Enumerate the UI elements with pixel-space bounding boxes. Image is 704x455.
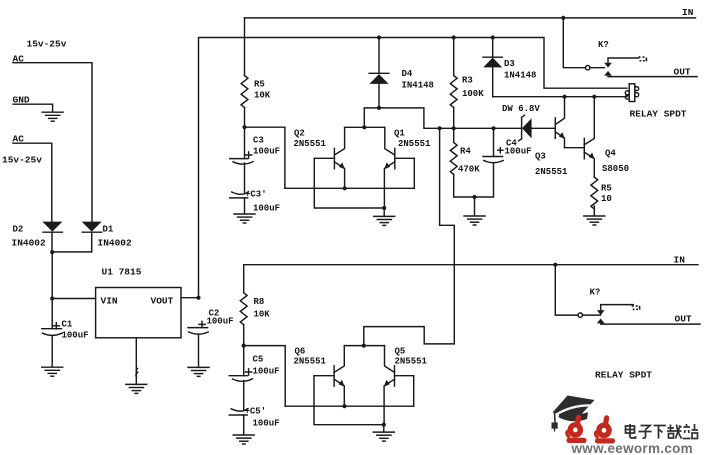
wire OUT (upper) (608, 76, 697, 78)
svg-text:IN4002: IN4002 (98, 238, 133, 249)
transistor Q4 (584, 97, 594, 177)
wire IN rail (top) (245, 17, 696, 19)
svg-text:IN4002: IN4002 (12, 238, 47, 249)
ground (GND input) (42, 112, 63, 121)
svg-text:10K: 10K (254, 310, 271, 320)
svg-text:R8: R8 (254, 297, 265, 307)
diode D2 (42, 222, 62, 252)
wire VOUT to +15V rail (181, 297, 199, 299)
diode D1 (82, 222, 102, 252)
svg-text:100uF: 100uF (505, 147, 532, 157)
polarity + (C2) (199, 321, 205, 327)
contact NO triangle (upper) (604, 63, 612, 68)
node supply drop junction (438, 126, 442, 130)
svg-text:K?: K? (590, 288, 601, 298)
svg-text:R5: R5 (254, 80, 265, 90)
ground (U1) (126, 384, 147, 393)
wire Q5 base loop (413, 376, 415, 407)
svg-text:R4: R4 (460, 147, 471, 157)
capacitor C4 (475, 128, 504, 197)
svg-text:1N4148: 1N4148 (504, 71, 536, 81)
wire NO contact terminal (upper) (608, 58, 639, 63)
svg-text:100K: 100K (462, 89, 484, 99)
svg-text:15v-25v: 15v-25v (2, 155, 42, 166)
svg-text:C1: C1 (62, 320, 73, 330)
svg-text:+C5': +C5' (245, 407, 267, 417)
relay coil K (625, 84, 638, 102)
wire roof tap up to D4 junction (364, 108, 379, 127)
wire collector roof (lower) (344, 345, 384, 347)
node D4 bottom junction (377, 106, 381, 110)
svg-text:VIN: VIN (101, 296, 118, 307)
svg-text:IN4148: IN4148 (402, 81, 434, 91)
wire IN rail (lower) (244, 264, 698, 266)
transistor Q1 (384, 127, 414, 208)
svg-text:15v-25v: 15v-25v (27, 39, 67, 50)
ground (C2) (188, 367, 209, 376)
ground (C3') (234, 214, 255, 223)
terminal mark (upper NO) (639, 56, 648, 61)
wire Q1 base loop (413, 158, 415, 188)
op-amp regulator U1 7815 (96, 288, 181, 338)
capacitor C2 (188, 328, 208, 367)
svg-text:OUT: OUT (675, 314, 692, 325)
transistor Q3 (555, 97, 565, 148)
contact NC triangle (lower) (597, 319, 605, 324)
wire C5 to C5' (243, 381, 245, 410)
svg-text:IN: IN (674, 255, 686, 266)
resistor R5 (emitter) (591, 177, 598, 216)
node R3 on +15V rail (452, 35, 456, 39)
svg-text:D2: D2 (13, 225, 24, 235)
polarity + (C5) (246, 369, 252, 375)
wire collector roof (upper) (345, 126, 385, 128)
watermark logo: graduation cap (552, 396, 595, 432)
polarity + (C1) (53, 323, 59, 329)
svg-text:RELAY SPDT: RELAY SPDT (595, 370, 652, 381)
ground (C5') (233, 435, 254, 444)
svg-text:Q5: Q5 (395, 347, 406, 357)
wire D1 bottom to D2 bottom (52, 251, 91, 253)
capacitor C3' (230, 192, 249, 214)
node D4 tap on roof (362, 125, 366, 129)
resistor R5 (241, 76, 248, 108)
watermark text: xia (down) (654, 426, 667, 439)
wire AC lower to D2 column (13, 143, 52, 222)
wire NO contact terminal (lower) (601, 305, 634, 311)
wire D4 junction step to bias line (379, 108, 522, 128)
node D4 on +15V rail (377, 35, 381, 39)
node Q6 emitter junction (342, 404, 346, 408)
node R8/C5 junction (242, 344, 246, 348)
diode D4 (369, 38, 389, 108)
ground (upper multivibrator) (374, 208, 395, 225)
node IN rail to relay switch (upper) (561, 16, 565, 20)
svg-text:10K: 10K (254, 91, 271, 101)
svg-text:www.eeworm.com: www.eeworm.com (571, 441, 693, 455)
svg-text:10: 10 (601, 194, 612, 204)
terminal mark (lower NO) (632, 305, 641, 310)
svg-text:D1: D1 (103, 225, 114, 235)
svg-text:100uF: 100uF (253, 204, 280, 214)
node R5/C3 junction (242, 125, 246, 129)
svg-text:Q1: Q1 (394, 129, 405, 139)
svg-text:Q6: Q6 (295, 347, 306, 357)
wire pole to contacts (upper) (590, 67, 605, 69)
svg-text:RELAY SPDT: RELAY SPDT (630, 109, 687, 120)
svg-text:VOUT: VOUT (151, 296, 174, 307)
svg-text:470K: 470K (458, 165, 480, 175)
svg-text:K?: K? (598, 40, 609, 50)
svg-text:IN: IN (682, 7, 694, 18)
svg-text:100uF: 100uF (253, 367, 280, 377)
watermark logo: red bug glyph 2 (595, 418, 612, 441)
watermark logo: red bug glyph 1 (567, 417, 584, 440)
diode D3 (483, 38, 502, 97)
wire AC top to D1 column (13, 63, 92, 222)
node VIN junction (50, 296, 54, 300)
polarity + (C4) (498, 148, 503, 153)
node Q2 emitter junction (343, 186, 347, 190)
svg-text:2N5551: 2N5551 (294, 357, 327, 367)
wire U1 ground pin (135, 338, 137, 384)
polarity + (C3) (246, 152, 252, 158)
svg-text:OUT: OUT (674, 67, 691, 78)
wire emitter coupling line (lower) (285, 405, 414, 407)
node Q3 collector on coil line (562, 95, 566, 99)
wire pole to contacts (lower) (583, 314, 601, 316)
watermark text: zhan (station) (683, 424, 699, 439)
node Q4 collector on coil line (592, 95, 596, 99)
transistor Q2 (314, 127, 345, 188)
wire to switch pole (lower) (555, 265, 578, 315)
wire R5 to C3 junction (244, 108, 246, 128)
svg-text:DW 6.8V: DW 6.8V (502, 104, 540, 114)
wire Q6 base loop to ground line (314, 376, 384, 425)
svg-text:Q3: Q3 (535, 152, 546, 162)
transistor Q5 (384, 346, 414, 425)
resistor R8 (240, 293, 247, 325)
svg-text:Q2: Q2 (294, 129, 305, 139)
contact NC triangle (upper) (604, 71, 612, 76)
wire C3 junction to Q2 emitter line (245, 127, 285, 188)
svg-text:+C3': +C3' (245, 190, 267, 200)
node R3/R4 junction (452, 126, 456, 130)
wire +15V rail (VOUT up and across) (199, 38, 628, 298)
node base/ground junction (lower) (382, 423, 386, 427)
wire OUT (lower) (601, 323, 700, 325)
switch pole contact (lower K?) (578, 313, 582, 317)
watermark text: zai (load) (667, 425, 682, 439)
pin 3 mark (U1 ground pin) (136, 369, 138, 378)
svg-text:2N5551: 2N5551 (398, 139, 431, 149)
capacitor C1 (42, 329, 62, 367)
node R4/C4 ground junction (472, 195, 476, 199)
svg-text:C5: C5 (253, 355, 264, 365)
node C4 tap on bias line (491, 126, 495, 130)
svg-text:Q4: Q4 (605, 149, 616, 159)
watermark text: zi (child) (639, 426, 652, 439)
ground (R4/C4) (464, 197, 485, 225)
wire Q3 emitter to Q4 base (565, 147, 585, 149)
capacitor C3 (230, 127, 253, 164)
wire to switch pole (upper) (563, 18, 585, 68)
node lower rail to switch (553, 263, 557, 267)
svg-text:S8050: S8050 (602, 164, 629, 174)
svg-text:2N5551: 2N5551 (535, 167, 568, 177)
capacitor C5 (229, 346, 252, 382)
wire IN rail down into R5 (244, 18, 246, 76)
svg-text:D4: D4 (402, 69, 413, 79)
node base/ground junction (upper) (382, 206, 386, 210)
svg-text:2N5551: 2N5551 (395, 357, 428, 367)
wire relay coil bottom feed (493, 96, 627, 98)
switch pole contact (upper K?) (586, 66, 590, 70)
svg-text:C3: C3 (253, 136, 264, 146)
svg-text:R3: R3 (462, 76, 473, 86)
ground (R5 emitter) (584, 216, 605, 225)
wire C3 to C3' (244, 163, 246, 193)
wire C5 junction to Q6 emitter line (244, 346, 286, 407)
wire rectified rail down to VIN junction (51, 252, 53, 328)
wire Q2 base loop to ground line (314, 158, 384, 208)
svg-text:100uF: 100uF (207, 317, 234, 327)
zener diode DW (519, 115, 556, 141)
svg-text:D3: D3 (504, 59, 515, 69)
node VOUT junction (196, 296, 200, 300)
wire emitter coupling line (upper) (285, 187, 414, 189)
resistor R4 (450, 128, 474, 197)
svg-text:2N5551: 2N5551 (294, 139, 327, 149)
contact NO triangle (lower) (597, 310, 605, 315)
node D3 on +15V rail (491, 35, 495, 39)
svg-text:100uF: 100uF (253, 147, 280, 157)
ground (C1) (42, 367, 63, 376)
capacitor C5' (229, 409, 248, 435)
transistor Q6 (314, 346, 345, 407)
wire lower rail into R8 (243, 265, 245, 293)
ground (lower multivibrator) (373, 425, 394, 441)
watermark text: dian (electric) (626, 424, 636, 438)
wire VIN junction to U1 (52, 298, 95, 300)
svg-text:100uF: 100uF (253, 419, 280, 429)
node supply tap on roof (lower) (362, 344, 366, 348)
wire GND to ground (13, 104, 53, 112)
resistor R3 (450, 38, 457, 129)
node junction D2/D1 (50, 250, 54, 254)
wire supply drop to lower oscillator (364, 128, 455, 345)
svg-text:100uF: 100uF (62, 331, 89, 341)
svg-text:R5: R5 (601, 184, 612, 194)
svg-text:U1 7815: U1 7815 (102, 267, 142, 278)
wire R8 to C5 junction (243, 325, 245, 346)
